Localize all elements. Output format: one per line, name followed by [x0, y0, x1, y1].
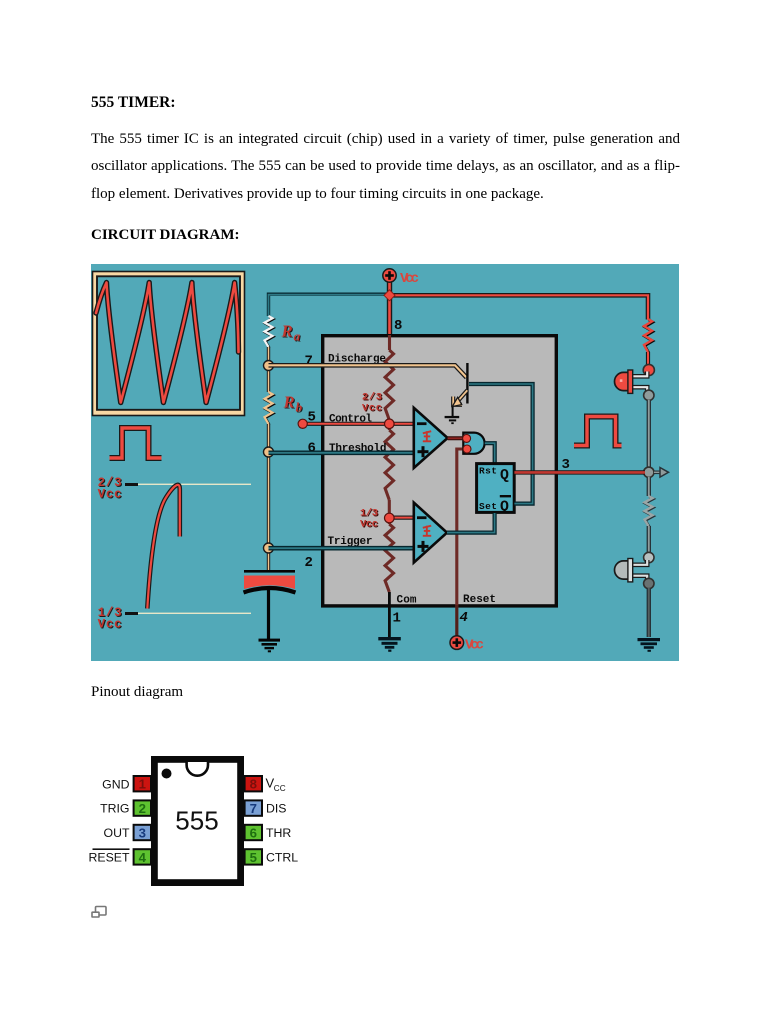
wire to 2/3 node — [388, 420, 391, 430]
LED D2 (gray, off) — [615, 559, 633, 582]
wire Vcc down to pin8 — [387, 298, 392, 335]
Vcc supply symbol (top) — [383, 269, 396, 282]
label Control — [329, 413, 372, 425]
wire node6 to node2 — [267, 456, 270, 544]
node LED2 anode — [644, 552, 654, 562]
svg-text:OUT: OUT — [104, 826, 130, 840]
svg-text:555: 555 — [175, 806, 218, 836]
pin box 2 — [134, 800, 151, 816]
svg-text:3: 3 — [139, 825, 146, 840]
op-amp comparator 1 (threshold) — [414, 408, 448, 468]
fullscreen icon — [88, 902, 112, 922]
svg-text:DIS: DIS — [266, 802, 287, 816]
IC 555 body — [323, 336, 557, 606]
label Q — [500, 468, 509, 484]
svg-text:Reset: Reset — [463, 594, 496, 606]
gate input node B — [463, 445, 471, 453]
label RA — [281, 322, 302, 345]
svg-text:Rst: Rst — [479, 465, 497, 476]
svg-text:CC: CC — [274, 784, 286, 793]
pin label VCC — [266, 776, 286, 793]
pin 6 label — [308, 441, 316, 457]
diagram background — [91, 264, 679, 661]
2/3 Vcc tick — [125, 483, 138, 486]
1/3 Vcc tick — [125, 612, 138, 615]
wire Com pin1 — [388, 592, 391, 637]
svg-text:4: 4 — [460, 610, 468, 626]
Vcc supply symbol (bottom) — [450, 636, 464, 650]
pin label THR — [266, 826, 291, 840]
resistor RB — [265, 392, 274, 425]
svg-text:1: 1 — [139, 777, 146, 792]
LED D2 leads — [633, 560, 647, 580]
node Vcc rail (diamond) — [384, 290, 395, 301]
wire gate to flip-flop Rst — [485, 443, 495, 463]
wire Trigger pin2 — [269, 546, 414, 551]
label 1/3 Vcc (left) — [98, 606, 123, 633]
heading 555 TIMER — [91, 94, 176, 112]
wire node2 to capacitor — [267, 552, 270, 571]
wire Ra to node7 — [267, 347, 270, 361]
pin 1 marker dot — [162, 769, 172, 779]
svg-text:Vcc: Vcc — [98, 618, 122, 632]
label Threshold — [329, 443, 387, 455]
svg-text:Com: Com — [397, 595, 417, 607]
node output junction — [644, 467, 654, 477]
pin label TRIG — [100, 802, 129, 816]
pin 3 label — [562, 457, 570, 473]
label 2/3 Vcc (left) — [98, 476, 123, 503]
wire pin3 output — [514, 470, 645, 474]
resistor R1 (LED1 series) — [644, 319, 653, 353]
wire capacitor to ground — [267, 589, 270, 639]
wire LED2 to ground — [647, 588, 651, 637]
label Q-bar — [500, 495, 511, 515]
pinout diagram SVG placeholder — [80, 750, 310, 895]
circuit diagram SVG placeholder — [91, 264, 679, 661]
heading CIRCUIT DIAGRAM — [91, 227, 239, 244]
wire Vcc rail to Ra (top-left) — [269, 294, 389, 316]
ground (pin1 Com) — [378, 637, 401, 652]
svg-text:R: R — [283, 393, 295, 412]
IC chip body — [154, 759, 240, 882]
chip notch — [187, 762, 208, 776]
ground (right rail) — [638, 638, 661, 652]
svg-text:GND: GND — [102, 777, 129, 791]
svg-text:1: 1 — [393, 611, 401, 627]
flip-flop U2 — [477, 464, 515, 513]
pin 4 label — [460, 610, 468, 626]
pin 1 label — [393, 611, 401, 627]
pin box 8 — [245, 776, 262, 792]
capacitor C body — [244, 576, 296, 593]
svg-text:Vcc: Vcc — [360, 518, 378, 530]
resistor divider R upper — [385, 350, 393, 420]
comparator 2 symbol — [423, 526, 431, 536]
svg-text:7: 7 — [250, 801, 257, 816]
svg-text:Q: Q — [500, 499, 509, 515]
right pulse waveform — [574, 417, 622, 446]
svg-text:b: b — [296, 400, 303, 415]
svg-text:CTRL: CTRL — [266, 851, 298, 865]
wire Control pin5 — [303, 422, 413, 426]
pin box 6 — [245, 825, 262, 841]
wire node7 to Rb — [267, 370, 270, 392]
wire pin8 into box — [388, 335, 391, 350]
node LED1 anode — [643, 364, 654, 375]
wire Vcc symbol to rail node — [387, 281, 392, 292]
pin box 5 — [245, 849, 262, 865]
paragraph — [91, 126, 680, 208]
gate input node A — [463, 434, 471, 442]
left pulse waveform — [110, 428, 162, 458]
RESET overline — [93, 848, 130, 850]
node 2/3 divider — [385, 419, 395, 429]
svg-text:a: a — [294, 329, 301, 344]
node pin6 junction — [264, 447, 274, 457]
svg-text:5: 5 — [250, 850, 257, 865]
wire Discharge pin7 — [269, 365, 467, 377]
pin label RESET — [89, 851, 130, 865]
label RB — [283, 393, 304, 416]
wire LED1 to output node — [647, 400, 651, 467]
wire Reset pin4 to gate — [457, 449, 463, 636]
pin box 3 — [134, 825, 151, 841]
wire Threshold pin6 — [269, 450, 414, 455]
svg-text:Vcc: Vcc — [400, 271, 419, 287]
caption Pinout diagram — [91, 684, 183, 701]
LED D1 (red, on) — [615, 370, 633, 393]
pin 7 label — [305, 354, 313, 370]
svg-text:THR: THR — [266, 826, 291, 840]
pin box 4 — [134, 849, 151, 865]
label Com — [397, 595, 417, 607]
pin box 1 — [134, 776, 151, 792]
label Set — [479, 501, 497, 512]
resistor divider R middle — [385, 430, 393, 500]
label 555 — [175, 806, 218, 836]
svg-text:2: 2 — [139, 801, 146, 816]
svg-text:Vcc: Vcc — [98, 488, 122, 502]
wire pin4 below box — [455, 605, 458, 636]
label Reset — [463, 594, 496, 606]
node 1/3 divider — [385, 513, 395, 523]
capacitor charge curve — [147, 485, 180, 609]
node pin7 junction — [264, 361, 274, 371]
LED D1 leads — [633, 372, 647, 392]
oscilloscope frame — [93, 272, 245, 416]
pin label OUT — [104, 826, 130, 840]
svg-text:4: 4 — [139, 850, 147, 865]
pin label DIS — [266, 802, 287, 816]
transistor Q1 (discharge) — [452, 363, 469, 416]
wire R2 to LED2 node — [647, 526, 651, 553]
2/3 Vcc level line — [138, 484, 251, 485]
resistor divider R lower — [385, 524, 393, 592]
label Vcc (top) — [400, 271, 419, 287]
label Vcc (bottom) — [465, 637, 484, 653]
svg-text:Set: Set — [479, 501, 497, 512]
ground (transistor emitter) — [445, 416, 460, 424]
wire Rb to node6 — [267, 424, 270, 448]
svg-text:RESET: RESET — [89, 851, 130, 865]
op-amp comparator 2 (trigger) — [414, 503, 447, 563]
label Trigger — [328, 536, 373, 548]
svg-text:TRIG: TRIG — [100, 802, 129, 816]
label 1/3 Vcc (divider) — [360, 507, 379, 531]
node LED1 cathode — [644, 390, 654, 400]
wire Vcc rail down right side — [0, 0, 1, 1]
wire to 1/3 node — [388, 500, 391, 524]
capacitor C top plate — [244, 570, 295, 573]
pin box 7 — [245, 800, 262, 816]
svg-text:Q: Q — [500, 468, 509, 484]
node Control terminal — [298, 419, 307, 428]
label Discharge — [328, 354, 386, 366]
svg-text:2: 2 — [305, 555, 313, 571]
wire Vcc rail to right — [390, 295, 648, 319]
oscilloscope screen — [97, 276, 240, 410]
pin label GND — [102, 777, 129, 791]
svg-text:R: R — [281, 322, 293, 341]
pin label CTRL — [266, 851, 298, 865]
sawtooth waveform — [96, 283, 239, 403]
pin 8 label — [394, 318, 402, 334]
ground (capacitor) — [259, 639, 281, 653]
label 2/3 Vcc (divider) — [362, 391, 383, 415]
node pin2 junction — [264, 543, 274, 553]
wire R1 to LED1 node — [646, 352, 650, 365]
svg-text:8: 8 — [250, 777, 257, 792]
label Rst — [479, 465, 497, 476]
output arrow — [654, 468, 669, 478]
svg-text:Vcc: Vcc — [465, 637, 484, 653]
wire output node to R2 — [647, 477, 651, 496]
wire 1/3 node to comparator 2 — [393, 515, 413, 519]
pin 2 label — [305, 555, 313, 571]
pin 5 label — [308, 410, 316, 426]
svg-text:6: 6 — [250, 825, 257, 840]
comparator 1 symbol — [423, 431, 431, 441]
wire comparator 2 to flip-flop Set — [447, 513, 495, 533]
resistor RA — [265, 316, 274, 348]
wire comparator 1 to gate — [448, 436, 464, 440]
gate (flip-flop input) — [463, 433, 484, 454]
node LED2 cathode — [644, 578, 654, 588]
wire Q-bar to transistor — [469, 384, 533, 504]
1/3 Vcc level line — [138, 613, 251, 614]
resistor R2 (LED2 series) — [645, 496, 654, 527]
svg-text:8: 8 — [394, 318, 402, 334]
